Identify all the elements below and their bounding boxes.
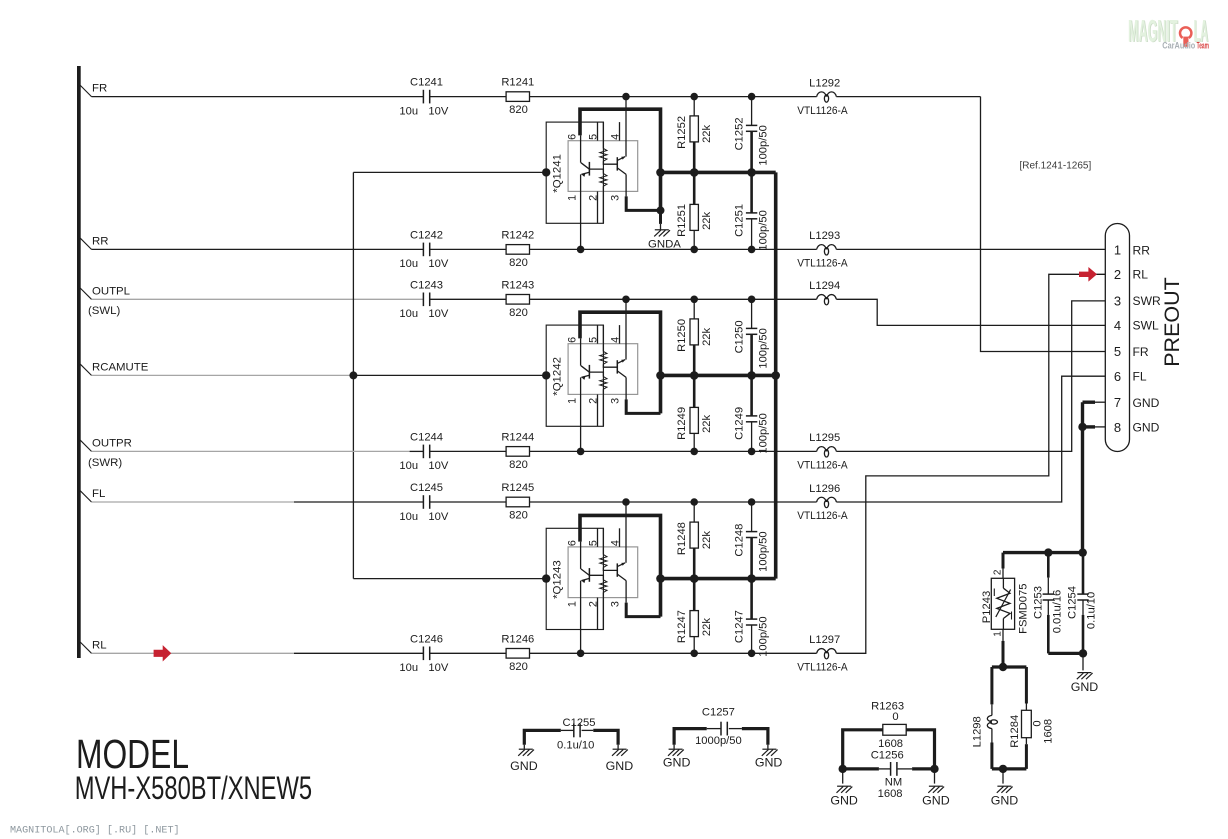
svg-text:MAGNITOLA[.ORG] [.RU] [.NET]: MAGNITOLA[.ORG] [.RU] [.NET] (10, 825, 180, 837)
*Q1243 mute bus (661, 577, 776, 581)
resistor R1242 820 (506, 245, 529, 255)
*Q1241 mute bus junctions (656, 168, 665, 177)
resistor R1241 820 (506, 92, 529, 102)
*Q1242 thick base rail (580, 312, 661, 413)
*Q1241 base resistor A (zigzag) (602, 122, 604, 148)
*Q1243 pin3 column (625, 581, 627, 603)
svg-text:0.01u/16: 0.01u/16 (1051, 590, 1063, 634)
*Q1241 base resistor B (zigzag) (590, 169, 604, 174)
svg-text:22k: 22k (701, 124, 713, 142)
wire RCAMUTE row (faded segment) (92, 374, 354, 376)
svg-text:GND: GND (1071, 680, 1099, 694)
capacitor C1246 10u 10V (422, 647, 424, 661)
svg-text:FR: FR (92, 83, 107, 95)
ground symbol C1257 left (673, 745, 675, 749)
capacitor C1257 1000p/50 (674, 729, 707, 745)
*Q1242 base resistor A (zigzag) (602, 325, 604, 351)
wire FL row (faded segment) (92, 501, 295, 503)
capacitor C1251 100p/50 (750, 172, 753, 213)
resistor R1251 22k (693, 172, 696, 204)
capacitor C1243 10u 10V (422, 293, 424, 307)
*Q1242 pin3 to rail (626, 399, 660, 413)
wire FL to preout pin6 (836, 376, 1105, 502)
*Q1241 pin stubs (597, 122, 599, 141)
resistor R1245 820 (506, 497, 529, 507)
svg-text:1: 1 (992, 631, 1003, 637)
svg-text:R1250: R1250 (676, 319, 688, 352)
wire RL to preout pin2 (836, 274, 1105, 653)
capacitor C1245 10u 10V (422, 495, 424, 509)
svg-text:7: 7 (1114, 395, 1121, 410)
transistor *Q1243 outer boundary (546, 528, 603, 629)
svg-text:L1297: L1297 (809, 634, 840, 646)
svg-text:FL: FL (92, 488, 105, 500)
capacitor C1254 0.1u/10 (1082, 553, 1085, 595)
svg-text:0.1u/10: 0.1u/10 (1086, 592, 1098, 629)
svg-text:GND: GND (1133, 421, 1160, 435)
svg-text:GND: GND (922, 794, 950, 808)
inductor L1292 VTL1126-A (817, 92, 827, 97)
svg-text:*Q1241: *Q1241 (552, 154, 564, 193)
*Q1242 mute bus (661, 374, 776, 378)
svg-text:22k: 22k (701, 414, 713, 432)
resistor R1263 0 1608 (843, 730, 883, 769)
wire RR row (92, 248, 424, 250)
wire OUTPL row (faded segment) (92, 298, 424, 300)
resistor R1247 22k (693, 579, 696, 611)
*Q1243 pin1 emitter column (580, 581, 582, 654)
svg-text:10V: 10V (428, 258, 448, 270)
transistor *Q1242 package (gray) (568, 344, 638, 395)
svg-text:RL: RL (92, 639, 107, 651)
node RL label and bus stub (80, 642, 91, 653)
svg-text:GND: GND (830, 794, 858, 808)
resistor R1249 22k (693, 375, 696, 407)
capacitor C1250 100p/50 (751, 299, 753, 328)
*Q1242 base resistor B (zigzag) (590, 372, 604, 377)
inductor L1297 VTL1126-A (817, 649, 827, 654)
*Q1243 mute bus junctions (656, 574, 665, 583)
*Q1243 transistor A (left) (588, 568, 590, 582)
svg-text:1608: 1608 (1043, 719, 1055, 744)
svg-text:FL: FL (1133, 370, 1147, 384)
svg-text:100p/50: 100p/50 (758, 413, 770, 453)
capacitor C1241 10u 10V (422, 90, 424, 104)
capacitor C1249 100p/50 (750, 375, 753, 416)
junction gnd bar (999, 765, 1007, 773)
svg-text:GND: GND (1133, 396, 1160, 410)
*Q1243 mute feed junction on left edge (542, 574, 550, 582)
gnd bus vertical (1081, 402, 1084, 552)
*Q1242 collector feed from signal row (625, 299, 627, 359)
ground GNDA symbol (655, 229, 669, 231)
svg-text:10V: 10V (428, 511, 448, 523)
junction mute tie / Q1242 bus (771, 371, 780, 380)
svg-text:10V: 10V (428, 105, 448, 117)
junction gnd bar / gnd bus (1079, 548, 1087, 556)
wire OUTPR row (faded segment) (92, 450, 410, 452)
svg-text:FSMD075: FSMD075 (1018, 584, 1030, 634)
svg-text:10u: 10u (399, 662, 418, 674)
*Q1243 pin stubs (597, 528, 599, 547)
*Q1243 base resistor B (zigzag) (590, 575, 604, 580)
svg-text:4: 4 (1114, 318, 1121, 333)
svg-text:RR: RR (92, 235, 108, 247)
svg-text:L1293: L1293 (809, 230, 840, 242)
transistor *Q1243 package (gray) (568, 547, 638, 598)
svg-text:100p/50: 100p/50 (758, 125, 770, 165)
svg-text:CarAudio: CarAudio (1162, 40, 1196, 50)
svg-text:10u: 10u (399, 258, 418, 270)
gnd branch bar under P1243 (992, 665, 1027, 668)
inductor L1293 VTL1126-A (817, 245, 827, 250)
svg-text:1608: 1608 (878, 738, 903, 750)
svg-text:R1251: R1251 (676, 204, 688, 237)
fuse P1243 FSMD075 (1002, 553, 1005, 569)
svg-text:10V: 10V (428, 308, 448, 320)
svg-text:820: 820 (509, 257, 528, 269)
wire OUTPL to preout pin4 (SWL) (836, 299, 1105, 325)
node FR label and bus stub (80, 85, 91, 96)
*Q1242 transistor B (right) (616, 360, 618, 373)
svg-text:*Q1243: *Q1243 (552, 560, 564, 599)
svg-text:L1294: L1294 (809, 280, 840, 292)
svg-text:0.1u/10: 0.1u/10 (557, 739, 594, 751)
inductor L1295 VTL1126-A (817, 447, 827, 452)
wire RL row (faded segment) (92, 652, 295, 654)
resistor R1244 820 (506, 447, 529, 457)
wire FL row (294, 501, 423, 503)
junction RCAMUTE / mute rail (349, 371, 357, 379)
mute rail to Q1243 (353, 578, 546, 580)
gnd link C1253-C1254 (1048, 652, 1083, 655)
transistor *Q1241 outer boundary (546, 122, 603, 223)
*Q1241 pin1 emitter column (580, 174, 582, 249)
capacitor C1248 100p/50 (751, 502, 753, 532)
svg-text:3: 3 (609, 601, 621, 607)
svg-text:100p/50: 100p/50 (758, 531, 770, 571)
svg-text:OUTPR: OUTPR (92, 437, 132, 449)
*Q1242 pin3 column (625, 377, 627, 399)
svg-text:GND: GND (991, 794, 1019, 808)
svg-text:R1244: R1244 (501, 431, 534, 443)
mute rail vertical (352, 172, 354, 578)
svg-text:C1254: C1254 (1066, 586, 1078, 619)
svg-text:3: 3 (609, 195, 621, 201)
svg-text:C1257: C1257 (702, 707, 735, 719)
svg-text:8: 8 (1114, 420, 1121, 435)
inductor L1294 VTL1126-A (817, 295, 827, 300)
wire OUTPL row (430, 298, 817, 300)
svg-text:(SWL): (SWL) (88, 305, 120, 317)
svg-text:*Q1242: *Q1242 (552, 357, 564, 396)
svg-text:P1243: P1243 (981, 591, 993, 623)
*Q1243 transistor B (right) (616, 563, 618, 576)
*Q1242 mute bus junctions (656, 371, 665, 380)
svg-text:L1292: L1292 (809, 77, 840, 89)
svg-text:0: 0 (892, 711, 898, 723)
signal-flow arrow on RL input (154, 645, 172, 661)
svg-text:GND: GND (663, 755, 691, 769)
transistor *Q1242 outer boundary (546, 325, 603, 426)
node RCAMUTE label and bus stub (80, 364, 91, 375)
node OUTPR label and bus stub (80, 440, 91, 451)
svg-text:[Ref.1241-1265]: [Ref.1241-1265] (1020, 160, 1092, 171)
svg-text:820: 820 (509, 661, 528, 673)
svg-text:FR: FR (1133, 345, 1149, 359)
svg-text:L1295: L1295 (809, 432, 840, 444)
svg-text:L1298: L1298 (971, 716, 983, 747)
svg-text:RR: RR (1133, 243, 1151, 257)
svg-text:VTL1126-A: VTL1126-A (797, 662, 848, 674)
*Q1241 collector feed from signal row (625, 97, 627, 157)
mute tie bus vertical (774, 172, 778, 578)
svg-text:GND: GND (510, 759, 538, 773)
svg-text:L1296: L1296 (809, 483, 840, 495)
GNDA stub under Q1241 (659, 210, 662, 224)
svg-text:22k: 22k (701, 618, 713, 636)
svg-text:10u: 10u (399, 511, 418, 523)
svg-text:1: 1 (1114, 243, 1121, 258)
svg-text:1000p/50: 1000p/50 (695, 735, 742, 747)
svg-text:22k: 22k (701, 327, 713, 345)
svg-text:R1245: R1245 (501, 482, 534, 494)
svg-text:100p/50: 100p/50 (758, 328, 770, 368)
svg-text:C1245: C1245 (410, 482, 443, 494)
wire RCAMUTE to Q1242 (353, 374, 546, 376)
inductor L1296 VTL1126-A (817, 497, 827, 502)
svg-text:6: 6 (566, 540, 578, 546)
wire pin8 GND stub (1083, 425, 1096, 428)
svg-text:R1249: R1249 (676, 407, 688, 440)
ground symbol C1255 right (617, 745, 619, 749)
magnitola logo (1128, 12, 1209, 50)
resistor R1248 22k (693, 502, 695, 522)
svg-text:MVH-X580BT/XNEW5: MVH-X580BT/XNEW5 (75, 770, 312, 806)
svg-text:R1241: R1241 (501, 77, 534, 89)
svg-text:10V: 10V (428, 662, 448, 674)
*Q1241 thick base rail (580, 109, 661, 210)
svg-text:C1241: C1241 (410, 77, 443, 89)
svg-text:C1251: C1251 (733, 204, 745, 237)
junction P1243 pin1 (999, 663, 1007, 671)
capacitor C1244 10u 10V (422, 445, 424, 459)
gnd bar under L1298/R1284 (992, 767, 1027, 770)
svg-text:C1256: C1256 (871, 749, 904, 761)
svg-text:2: 2 (992, 569, 1003, 575)
svg-text:(SWR): (SWR) (88, 457, 122, 469)
*Q1241 transistor B (right) (616, 157, 618, 170)
svg-text:R1242: R1242 (501, 229, 534, 241)
svg-text:6: 6 (1114, 369, 1121, 384)
*Q1243 thick base rail (580, 515, 661, 616)
wire OUTPR row (410, 450, 424, 452)
svg-text:VTL1126-A: VTL1126-A (797, 258, 848, 270)
resistor R1284 0 1608 (1025, 667, 1028, 704)
svg-text:1: 1 (566, 195, 578, 201)
capacitor C1242 10u 10V (422, 243, 424, 257)
resistor R1250 22k (693, 299, 695, 319)
junction pin8 gnd (1078, 423, 1086, 431)
svg-text:C1248: C1248 (733, 524, 745, 557)
svg-text:C1250: C1250 (733, 320, 745, 353)
*Q1241 mute bus (661, 171, 776, 175)
svg-text:OUTPL: OUTPL (92, 285, 130, 297)
svg-text:2: 2 (1114, 267, 1121, 282)
*Q1242 transistor A (left) (588, 365, 590, 379)
*Q1243 collector feed from signal row (625, 502, 627, 563)
svg-text:10u: 10u (399, 308, 418, 320)
capacitor C1252 100p/50 (751, 97, 753, 126)
junction R1263 left (839, 765, 847, 773)
svg-text:SWR: SWR (1133, 294, 1161, 308)
svg-text:C1242: C1242 (410, 229, 443, 241)
svg-text:GND: GND (755, 755, 783, 769)
wire FR down to preout pin5 (981, 97, 1106, 352)
node OUTPL label and bus stub (80, 288, 91, 299)
svg-text:C1255: C1255 (563, 717, 596, 729)
svg-text:R1252: R1252 (676, 116, 688, 149)
svg-text:10u: 10u (399, 105, 418, 117)
svg-text:R1243: R1243 (501, 279, 534, 291)
svg-text:C1249: C1249 (733, 407, 745, 440)
svg-text:R1263: R1263 (871, 700, 904, 712)
ground symbol C1257 right (767, 745, 769, 749)
capacitor C1253 0.01u/16 (1047, 553, 1050, 578)
*Q1242 mute feed junction on left edge (542, 371, 550, 379)
svg-text:C1243: C1243 (410, 279, 443, 291)
svg-text:1608: 1608 (878, 788, 903, 800)
wire pin7 GND stub (1083, 401, 1096, 404)
svg-text:Team: Team (1197, 40, 1209, 50)
svg-text:6: 6 (566, 337, 578, 343)
svg-text:RL: RL (1133, 268, 1149, 282)
svg-text:C1253: C1253 (1033, 586, 1045, 619)
*Q1241 pin3 column (625, 174, 627, 196)
svg-text:PREOUT: PREOUT (1160, 277, 1184, 367)
resistor R1246 820 (506, 649, 529, 659)
svg-text:C1247: C1247 (733, 610, 745, 643)
svg-text:820: 820 (509, 307, 528, 319)
gnd distribution bar (1003, 551, 1083, 554)
resistor R1252 22k (693, 97, 695, 116)
svg-text:R1246: R1246 (501, 633, 534, 645)
ground symbol R1263 left (842, 769, 844, 784)
svg-text:820: 820 (509, 104, 528, 116)
svg-text:R1247: R1247 (676, 610, 688, 643)
wire OUTPR to preout pin3 (SWR) (836, 301, 1105, 452)
*Q1241 transistor A (left) (588, 162, 590, 176)
svg-text:5: 5 (1114, 344, 1121, 359)
capacitor C1255 0.1u/10 (524, 730, 561, 744)
svg-text:820: 820 (509, 510, 528, 522)
svg-text:820: 820 (509, 459, 528, 471)
svg-text:GND: GND (606, 759, 634, 773)
svg-text:22k: 22k (701, 531, 713, 549)
svg-text:SWL: SWL (1133, 319, 1159, 333)
capacitor C1247 100p/50 (750, 579, 753, 620)
left input bus (77, 66, 81, 658)
svg-text:6: 6 (566, 134, 578, 140)
wire RL row (294, 652, 423, 654)
ground symbol R1263 right (934, 769, 936, 784)
signal-flow arrow at preout pin2 (RL) (1079, 267, 1097, 282)
svg-text:10u: 10u (399, 460, 418, 472)
svg-text:RCAMUTE: RCAMUTE (92, 361, 149, 373)
svg-text:C1252: C1252 (733, 117, 745, 150)
connector PREOUT body (1105, 224, 1129, 452)
svg-text:1: 1 (566, 398, 578, 404)
*Q1241 mute feed junction on left edge (542, 168, 550, 176)
svg-text:3: 3 (1114, 294, 1121, 309)
junction R1263 right (930, 765, 938, 773)
node FL label and bus stub (80, 491, 91, 502)
junction gnd bar / C1253 (1044, 548, 1052, 556)
svg-text:C1244: C1244 (410, 431, 443, 443)
inductor L1298 (990, 667, 993, 704)
svg-text:100p/50: 100p/50 (758, 616, 770, 656)
svg-text:10V: 10V (428, 460, 448, 472)
junction gnd link (1079, 649, 1087, 657)
svg-text:VTL1126-A: VTL1126-A (797, 460, 848, 472)
wire FR row (92, 96, 424, 98)
*Q1242 pin1 emitter column (580, 377, 582, 451)
svg-text:VTL1126-A: VTL1126-A (797, 510, 848, 522)
*Q1242 pin stubs (597, 325, 599, 344)
ground symbol C1255 left (523, 745, 525, 749)
svg-text:1: 1 (566, 601, 578, 607)
svg-text:100p/50: 100p/50 (758, 210, 770, 250)
svg-text:R1284: R1284 (1009, 715, 1021, 748)
*Q1241 pin3 to rail (626, 196, 660, 210)
mute rail to Q1241 (353, 171, 546, 173)
svg-text:NM: NM (885, 776, 902, 788)
ground symbol below L1298/R1284 (1002, 769, 1004, 784)
svg-text:22k: 22k (701, 211, 713, 229)
*Q1243 base resistor A (zigzag) (602, 528, 604, 554)
svg-text:3: 3 (609, 398, 621, 404)
node RR label and bus stub (80, 238, 91, 249)
svg-text:VTL1126-A: VTL1126-A (797, 105, 848, 117)
ground symbol below C1254 (1082, 653, 1084, 670)
svg-text:R1248: R1248 (676, 522, 688, 555)
svg-text:GNDA: GNDA (648, 238, 681, 250)
transistor *Q1241 package (gray) (568, 141, 638, 192)
svg-text:C1246: C1246 (410, 633, 443, 645)
resistor R1243 820 (506, 295, 529, 305)
*Q1243 pin3 to rail (626, 603, 660, 617)
